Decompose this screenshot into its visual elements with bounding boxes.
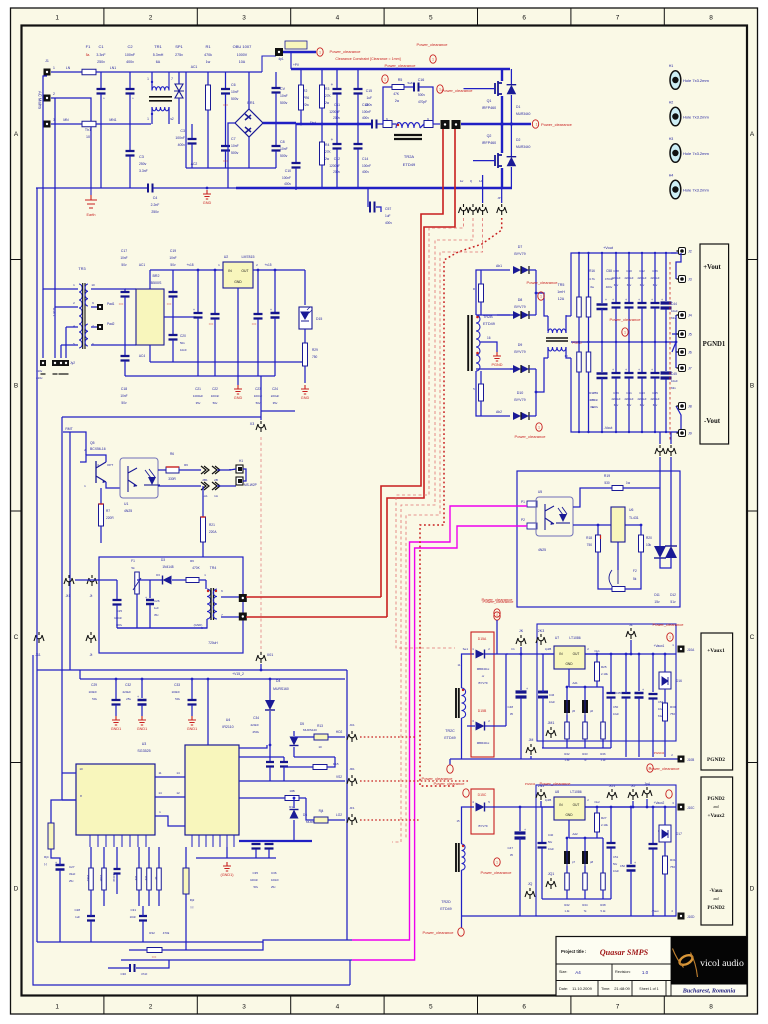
svg-text:GND: GND	[565, 662, 573, 666]
svg-text:63v: 63v	[614, 403, 619, 407]
svg-text:R4: R4	[325, 143, 329, 147]
capacitor C46	[538, 692, 548, 697]
svg-text:3: 3	[242, 1004, 246, 1011]
svg-text:Pad2: Pad2	[107, 322, 115, 326]
svg-text:100nF: 100nF	[171, 690, 180, 694]
svg-text:100nF: 100nF	[175, 136, 185, 140]
svg-text:C35: C35	[616, 691, 622, 695]
svg-text:H4: H4	[669, 174, 674, 178]
svg-text:400v: 400v	[126, 60, 134, 64]
svg-text:1A: 1A	[214, 494, 218, 498]
red dotted VS2	[360, 780, 468, 782]
svg-text:C16: C16	[418, 78, 425, 82]
svg-text:C58: C58	[606, 269, 612, 273]
svg-text:C22: C22	[212, 387, 218, 391]
svg-text:MUR3440: MUR3440	[516, 112, 531, 116]
svg-text:BCX56-16: BCX56-16	[90, 447, 106, 451]
svg-text:10nF: 10nF	[180, 348, 187, 352]
output connector J3	[676, 253, 681, 279]
svg-text:D11: D11	[654, 593, 660, 597]
svg-text:+Vout: +Vout	[603, 246, 614, 250]
svg-text:or: or	[482, 674, 485, 678]
resistor R16b 10 yellow	[314, 817, 328, 823]
svg-text:6: 6	[522, 1004, 526, 1011]
svg-text:D: D	[750, 886, 755, 893]
svg-text:50v: 50v	[121, 263, 127, 267]
svg-text:GND: GND	[301, 396, 310, 400]
svg-text:+Vaux2: +Vaux2	[708, 813, 725, 819]
svg-text:10nF: 10nF	[120, 256, 127, 260]
svg-text:J2: J2	[688, 250, 692, 254]
svg-text:400v: 400v	[362, 170, 369, 174]
vicol audio swoosh tail left	[673, 949, 684, 968]
svg-text:D3: D3	[161, 558, 165, 562]
svg-text:Ad2: Ad2	[572, 832, 578, 836]
bridge BR2 B500S	[136, 289, 164, 345]
capacitor C39 bottom	[615, 342, 617, 372]
capacitor C43 bottom	[641, 342, 643, 372]
svg-text:BR2: BR2	[153, 274, 160, 278]
svg-text:D: D	[14, 886, 19, 893]
snubber resistor top	[479, 284, 484, 302]
svg-text:R30: R30	[670, 705, 676, 709]
svg-text:1uF: 1uF	[154, 606, 159, 610]
svg-text:R22: R22	[564, 752, 570, 756]
svg-text:400v: 400v	[178, 143, 186, 147]
svg-text:2200uF: 2200uF	[637, 397, 646, 401]
capacitor C34b	[283, 757, 285, 761]
svg-text:R15: R15	[333, 762, 339, 766]
svg-text:50v: 50v	[213, 401, 218, 405]
svg-text:7: 7	[616, 1004, 620, 1011]
svg-text:10k: 10k	[646, 543, 652, 547]
svg-text:1: 1	[536, 123, 538, 127]
svg-text:+: +	[625, 368, 627, 372]
svg-text:OUT: OUT	[241, 269, 248, 273]
svg-text:[-]: [-]	[44, 862, 47, 866]
svg-text:470pF: 470pF	[418, 100, 427, 104]
svg-text:PGND2: PGND2	[654, 751, 665, 755]
svg-text:15: 15	[456, 819, 460, 823]
svg-text:PGND2: PGND2	[707, 757, 725, 763]
svg-text:MURS160: MURS160	[273, 687, 289, 691]
svg-text:100nF: 100nF	[88, 690, 97, 694]
svg-text:2.10k: 2.10k	[601, 823, 608, 827]
svg-text:B500S: B500S	[151, 281, 162, 285]
svg-text:D15C: D15C	[478, 793, 487, 797]
transformer TR2C core	[456, 688, 459, 718]
svg-text:27K: 27K	[325, 150, 332, 154]
connector JC1	[347, 731, 357, 742]
svg-text:10nF: 10nF	[280, 147, 288, 151]
svg-text:GND: GND	[203, 201, 212, 205]
svg-text:D15B: D15B	[478, 709, 487, 713]
svg-text:LO2: LO2	[336, 813, 342, 817]
svg-text:+Vaux1: +Vaux1	[654, 644, 665, 648]
LT1086 block 1 outline	[537, 624, 676, 741]
resistor R27 2.10k	[596, 807, 598, 813]
svg-text:D3: D3	[156, 573, 160, 577]
svg-text:275v: 275v	[175, 53, 183, 57]
svg-text:50v: 50v	[256, 401, 261, 405]
svg-text:1: 1	[147, 77, 149, 81]
svg-text:+: +	[331, 137, 334, 142]
svg-text:D12: D12	[670, 593, 676, 597]
svg-text:TR2D: TR2D	[441, 900, 451, 904]
svg-text:C24: C24	[272, 387, 278, 391]
power clearance aux1 bottom left	[447, 765, 453, 773]
optocoupler U1 4N25 box	[120, 458, 158, 498]
svg-text:63v: 63v	[671, 386, 676, 390]
svg-text:U7: U7	[555, 636, 559, 640]
svg-text:C52: C52	[620, 864, 626, 868]
svg-text:470k: 470k	[163, 931, 170, 935]
svg-text:C33: C33	[174, 683, 180, 687]
mid rail to clearance circle	[461, 123, 531, 125]
svg-text:27K: 27K	[325, 94, 332, 98]
svg-text:220uF: 220uF	[271, 394, 280, 398]
svg-text:220R: 220R	[106, 516, 114, 520]
svg-text:+: +	[137, 695, 139, 699]
svg-text:LN1: LN1	[110, 66, 116, 70]
row ticks left and right	[11, 260, 758, 763]
svg-text:11: 11	[158, 771, 161, 775]
svg-text:TR3: TR3	[78, 267, 85, 271]
U4 right side network	[239, 745, 267, 748]
svg-text:J9: J9	[688, 432, 692, 436]
resistor R17 4.7k 3w	[578, 342, 580, 352]
connector X3 and riser	[260, 376, 262, 420]
svg-text:U6: U6	[629, 508, 633, 512]
svg-text:MURS120: MURS120	[303, 728, 317, 732]
svg-text:R6: R6	[184, 463, 188, 467]
svg-text:1uF: 1uF	[367, 96, 373, 100]
svg-text:BYV79: BYV79	[479, 681, 488, 685]
svg-text:C10: C10	[285, 169, 291, 173]
mounting hole H1	[670, 71, 681, 90]
svg-text:2200uF: 2200uF	[650, 397, 659, 401]
svg-text:330B: 330B	[99, 875, 103, 882]
svg-text:C59: C59	[593, 391, 599, 395]
power clearance marker top	[285, 41, 307, 49]
svg-text:750: 750	[587, 543, 593, 547]
svg-text:D1: D1	[516, 105, 520, 109]
svg-text:C26: C26	[154, 599, 160, 603]
svg-text:2200uF: 2200uF	[624, 397, 633, 401]
capacitor C3x aux1	[622, 693, 631, 698]
resistor R15b 15R	[588, 253, 590, 297]
ground GND1 c32	[138, 716, 146, 725]
PGND2 rail block1	[450, 758, 681, 760]
bus wire RMT down	[69, 432, 71, 670]
capacitor C57 1nF 400v	[367, 188, 369, 207]
svg-text:400v: 400v	[284, 182, 291, 186]
resistor R14 10R	[285, 796, 299, 801]
svg-text:1: 1	[147, 117, 149, 121]
svg-text:10A: 10A	[239, 60, 246, 64]
svg-text:Hole 7x3.2mm: Hole 7x3.2mm	[683, 115, 709, 120]
HV- rail thick	[501, 168, 503, 188]
wire MN1	[96, 123, 151, 125]
output connector J2	[671, 252, 676, 254]
output connector J8	[676, 406, 681, 432]
svg-text:+: +	[612, 298, 614, 302]
svg-text:+PV: +PV	[293, 63, 300, 67]
svg-text:C45: C45	[671, 372, 677, 376]
svg-text:JQ: JQ	[528, 882, 533, 886]
svg-text:1: 1	[496, 861, 498, 865]
svg-text:MBR40xx: MBR40xx	[477, 741, 490, 745]
TR4 block outline	[99, 557, 243, 653]
svg-text:15K2: 15K2	[86, 875, 90, 882]
svg-text:JO1: JO1	[609, 784, 616, 788]
svg-text:C18: C18	[121, 387, 127, 391]
svg-text:Ou2: Ou2	[594, 800, 600, 804]
svg-text:J4: J4	[688, 314, 692, 318]
svg-text:3: 3	[242, 15, 246, 22]
output box +Vout PGND1 -Vout	[700, 244, 729, 444]
svg-text:D9: D9	[518, 343, 523, 347]
svg-text:A4: A4	[575, 970, 581, 975]
capacitor C50	[610, 654, 612, 692]
title row divider	[556, 937, 671, 997]
svg-text:JK: JK	[519, 629, 524, 633]
svg-text:H1: H1	[239, 459, 243, 463]
TR2D connections	[462, 807, 475, 844]
svg-text:50v: 50v	[253, 885, 258, 889]
svg-text:2200uF: 2200uF	[611, 397, 620, 401]
svg-text:2: 2	[149, 1004, 153, 1011]
svg-text:SP1: SP1	[175, 44, 183, 49]
svg-text:OBU 1007: OBU 1007	[233, 44, 252, 49]
svg-text:+: +	[642, 688, 644, 692]
svg-text:400v: 400v	[365, 103, 372, 107]
transformer TR2D winding	[462, 844, 466, 870]
svg-text:C46: C46	[549, 693, 555, 697]
svg-text:A: A	[14, 131, 19, 138]
svg-text:R31: R31	[670, 858, 676, 862]
wire from AC LN to TR3	[43, 76, 78, 289]
svg-text:AC1: AC1	[191, 65, 198, 69]
svg-text:14: 14	[158, 791, 162, 795]
svg-text:220uF: 220uF	[122, 690, 131, 694]
HV+ thick rail	[291, 68, 510, 70]
svg-text:+Vout: +Vout	[703, 264, 721, 271]
svg-text:HO2: HO2	[336, 730, 343, 734]
red wire risers	[381, 129, 443, 597]
resistor 10k	[138, 847, 140, 868]
secondary mid tap to PGND	[480, 342, 497, 352]
svg-text:Jp2B: Jp2B	[545, 798, 552, 802]
output connector J9	[679, 430, 686, 437]
pad Pad2	[91, 326, 97, 328]
svg-text:B: B	[14, 383, 18, 390]
resistor 10k	[148, 847, 150, 868]
trimmer Jp6	[582, 700, 588, 713]
svg-text:MS-W2P: MS-W2P	[244, 483, 257, 487]
capacitor C20 10nF 50v	[172, 317, 174, 334]
svg-text:220nF: 220nF	[250, 723, 259, 727]
svg-text:Q5: Q5	[90, 441, 95, 445]
svg-text:AC Mains: AC Mains	[38, 91, 43, 109]
svg-text:10: 10	[79, 767, 83, 771]
svg-text:GND: GND	[234, 280, 242, 284]
svg-text:400v: 400v	[385, 221, 392, 225]
svg-text:400v: 400v	[606, 285, 613, 289]
svg-text:1: 1	[55, 1004, 59, 1011]
wire bridge out thick	[263, 122, 296, 124]
svg-text:1: 1	[53, 66, 55, 70]
svg-text:10k: 10k	[144, 876, 148, 881]
svg-text:vicol audio: vicol audio	[700, 958, 744, 969]
vertical gate net 1d	[482, 175, 484, 203]
svg-text:C1: C1	[98, 44, 104, 49]
TR2C output join	[485, 653, 508, 655]
svg-text:U5: U5	[538, 490, 542, 494]
output connectors PGND1 group	[675, 315, 677, 342]
resistor R7 220R	[100, 488, 102, 504]
svg-text:10B: 10B	[289, 789, 294, 793]
svg-text:Jt: Jt	[90, 653, 93, 657]
wire opto output	[158, 469, 166, 471]
svg-text:Ab1: Ab1	[496, 264, 502, 268]
svg-text:R23: R23	[582, 752, 588, 756]
svg-text:===: ===	[209, 323, 214, 326]
svg-text:50v: 50v	[180, 341, 185, 345]
svg-text:PGND: PGND	[492, 363, 503, 367]
svg-text:p5: p5	[572, 709, 576, 713]
svg-text:Ou1: Ou1	[594, 649, 600, 653]
transformer TR2B winding	[476, 315, 480, 371]
fuse Th1	[51, 123, 82, 125]
svg-text:C: C	[750, 634, 755, 641]
svg-text:R28: R28	[600, 903, 606, 907]
svg-text:Power_clearance: Power_clearance	[527, 280, 559, 285]
U3 left pins	[62, 772, 76, 774]
snubber resistor bottom	[479, 384, 484, 401]
connector JM	[526, 744, 536, 755]
svg-text:C28: C28	[74, 908, 80, 912]
resistor 330B	[103, 847, 105, 868]
svg-text:C27: C27	[69, 865, 75, 869]
svg-text:50v: 50v	[613, 862, 618, 866]
capacitor C4 2.2nF 250v	[148, 184, 153, 193]
svg-text:X3: X3	[250, 422, 254, 426]
mid rail thick	[296, 123, 372, 125]
svg-text:5a.: 5a.	[86, 53, 91, 57]
U4 pin stubs	[192, 835, 234, 847]
svg-text:6A: 6A	[156, 60, 161, 64]
svg-text:12: 12	[176, 791, 180, 795]
svg-text:C48: C48	[507, 705, 513, 709]
svg-text:D4: D4	[276, 679, 280, 683]
wire MN to TR3 rows	[55, 98, 78, 307]
svg-text:BYV79: BYV79	[514, 350, 525, 354]
svg-text:p8: p8	[590, 860, 594, 864]
connector JK	[516, 635, 526, 646]
svg-text:47K: 47K	[393, 92, 400, 96]
svg-text:R7: R7	[106, 509, 110, 513]
resistor R31 750	[664, 842, 666, 856]
svg-text:C2: C2	[127, 44, 133, 49]
svg-text:330R: 330R	[168, 477, 176, 481]
svg-text:Power_clearance: Power_clearance	[330, 49, 362, 54]
svg-text:GND1: GND1	[111, 727, 122, 731]
svg-text:F2: F2	[633, 569, 637, 573]
pigtail below -Vout rail	[655, 445, 665, 456]
resistor R22 block1	[566, 715, 568, 722]
svg-text:Revision:: Revision:	[615, 970, 631, 974]
svg-text:C4: C4	[153, 196, 158, 200]
svg-text:IN: IN	[228, 269, 232, 273]
svg-text:C51: C51	[613, 855, 619, 859]
svg-text:4.7k: 4.7k	[589, 277, 595, 281]
resistor R21 220A	[202, 486, 204, 517]
svg-text:R6: R6	[170, 452, 174, 456]
svg-text:10nF: 10nF	[280, 94, 288, 98]
svg-text:400v: 400v	[592, 405, 599, 409]
svg-text:4: 4	[336, 1004, 340, 1011]
ground GND mid	[234, 385, 242, 394]
svg-text:750: 750	[312, 355, 318, 359]
svg-text:+: +	[612, 368, 614, 372]
svg-text:Jy2: Jy2	[70, 361, 75, 365]
svg-text:Power_clearance: Power_clearance	[481, 870, 513, 875]
svg-text:D2: D2	[516, 138, 520, 142]
junction dots output rails	[578, 252, 580, 254]
svg-text:10: 10	[318, 745, 322, 749]
svg-text:Rj4: Rj4	[44, 855, 49, 859]
svg-text:P2: P2	[521, 518, 525, 522]
svg-text:D10: D10	[517, 391, 524, 395]
svg-text:1N4148: 1N4148	[162, 565, 173, 569]
svg-text:Q2: Q2	[487, 134, 492, 138]
svg-text:-Vaux: -Vaux	[709, 888, 722, 894]
svg-text:MBR40xx: MBR40xx	[477, 667, 490, 671]
svg-text:Ir1: Ir1	[511, 647, 515, 651]
svg-text:Se1: Se1	[463, 647, 469, 651]
wire Ab1	[476, 270, 510, 315]
svg-text:750: 750	[670, 865, 675, 869]
aux2 main rail	[485, 806, 676, 808]
svg-text:5: 5	[429, 15, 433, 22]
svg-text:1.0: 1.0	[642, 970, 649, 975]
svg-text:PGND2: PGND2	[707, 796, 725, 802]
svg-text:+Vaux1: +Vaux1	[707, 648, 725, 654]
svg-text:F1: F1	[86, 44, 91, 49]
svg-text:C25: C25	[116, 609, 122, 613]
svg-text:400v: 400v	[362, 116, 369, 120]
svg-text:IRFP460: IRFP460	[482, 141, 496, 145]
resistor R17b 15R	[588, 342, 590, 352]
ground GND1 c29	[112, 716, 120, 725]
svg-text:C31: C31	[130, 908, 136, 912]
column ticks top and bottom	[104, 8, 664, 1014]
diode D2 MUR3440	[510, 124, 512, 156]
LED D17	[659, 825, 671, 842]
svg-text:AC2: AC2	[191, 162, 198, 166]
svg-text:1mH: 1mH	[557, 290, 565, 294]
capacitor C35 100nF 50v	[252, 844, 261, 849]
svg-text:Bucharest, Romania: Bucharest, Romania	[682, 988, 736, 995]
svg-text:Time:: Time:	[601, 987, 610, 991]
svg-text:C15: C15	[366, 89, 372, 93]
svg-text:J1: J1	[45, 59, 49, 63]
svg-text:100nF: 100nF	[271, 878, 279, 882]
svg-text:10k: 10k	[134, 876, 138, 881]
ground GND LED	[301, 385, 309, 394]
thick wire to power clearance	[283, 51, 316, 53]
